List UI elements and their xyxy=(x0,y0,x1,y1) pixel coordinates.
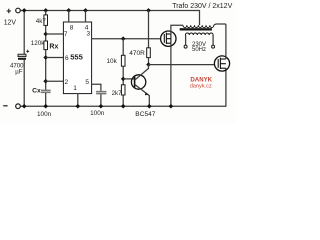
junction ground at pin 1 xyxy=(75,104,80,109)
wire Cx to ground rail xyxy=(45,93,47,106)
wire to pin 2 xyxy=(46,80,64,82)
transistor Q2 MOSFET left xyxy=(161,31,176,46)
transistor Q3 MOSFET right xyxy=(214,56,229,71)
wire pin 8 xyxy=(68,11,70,23)
junction ground at Q1 emitter xyxy=(147,104,152,109)
terminal secondary right xyxy=(212,45,215,48)
wire R4 to collector node xyxy=(148,58,150,65)
wire primary right end to Q3 xyxy=(214,24,226,25)
terminal secondary left xyxy=(184,45,187,48)
terminal +12V xyxy=(16,8,21,13)
wire output to R10k xyxy=(122,39,124,56)
transformer T1 secondary winding 230V xyxy=(185,33,213,35)
capacitor C2 100n plates xyxy=(96,92,106,94)
svg-text:BC547: BC547 xyxy=(135,111,155,118)
wire pin 3 output xyxy=(92,38,161,40)
wire secondary right leg xyxy=(212,35,214,45)
svg-text:7: 7 xyxy=(64,31,68,38)
capacitor Cx plates xyxy=(41,90,51,92)
svg-text:5: 5 xyxy=(85,79,89,86)
svg-text:50Hz: 50Hz xyxy=(192,47,206,53)
svg-text:2k7: 2k7 xyxy=(112,90,123,97)
junction ground at Q2 source xyxy=(169,104,174,109)
junction node pin7 xyxy=(43,32,48,37)
label plus sign xyxy=(7,9,11,13)
svg-text:6: 6 xyxy=(65,55,69,62)
junction top rail at pin 8 xyxy=(66,8,71,13)
label plus of C1 xyxy=(26,50,29,53)
svg-text:100n: 100n xyxy=(37,111,52,118)
junction ground at R3 xyxy=(121,104,126,109)
junction collector node xyxy=(146,62,151,67)
label minus sign xyxy=(3,105,7,107)
wire secondary left leg xyxy=(185,35,187,45)
resistor R3 2k7 body xyxy=(121,85,125,95)
resistor R4 470R body xyxy=(147,48,151,58)
transformer T1 primary winding 2x12V xyxy=(183,25,214,27)
wire pin 1 to ground xyxy=(77,94,79,107)
wire R3 to ground xyxy=(122,95,124,106)
junction output node xyxy=(121,36,126,41)
junction top rail at filter cap xyxy=(22,8,27,13)
svg-text:3: 3 xyxy=(87,31,91,38)
junction top rail at R470 xyxy=(146,8,151,13)
wire filter cap branch lower xyxy=(23,60,25,106)
resistor R2 10k body xyxy=(121,55,125,66)
wire collector node to Q3 gate xyxy=(149,64,215,66)
svg-text:470R: 470R xyxy=(129,50,145,57)
svg-text:Cx: Cx xyxy=(32,88,41,95)
junction node pin2 xyxy=(43,79,48,84)
wire ground bottom rail xyxy=(20,68,226,106)
wire R2 to base node xyxy=(122,66,124,85)
wire pin 4 xyxy=(85,11,87,23)
capacitor C1 4700uF electrolytic plates xyxy=(18,54,26,60)
IC U1 555 body xyxy=(63,22,91,94)
wire filter cap branch upper xyxy=(23,11,25,55)
junction ground at Cx xyxy=(43,104,48,109)
wire to pin 6 xyxy=(46,57,64,59)
svg-text:1: 1 xyxy=(73,85,77,92)
junction node pin6 xyxy=(43,55,48,60)
svg-text:10k: 10k xyxy=(107,58,118,65)
junction ground at filter cap xyxy=(22,104,27,109)
wire base of Q1 xyxy=(123,78,134,80)
svg-text:4k7: 4k7 xyxy=(36,18,47,25)
resistor Rx 120k body xyxy=(44,41,48,50)
junction top rail at R1 xyxy=(43,8,48,13)
junction ground at C2 xyxy=(99,104,104,109)
wire Q2 drain to transformer xyxy=(171,25,183,34)
wire Q2 source to ground xyxy=(170,43,172,106)
wire pin 5 xyxy=(92,84,101,91)
svg-text:120k: 120k xyxy=(31,40,46,47)
terminal negative xyxy=(16,104,21,109)
svg-text:µF: µF xyxy=(15,68,23,75)
transistor Q1 BC547 xyxy=(131,65,149,107)
wire rail to R1 xyxy=(45,11,47,15)
svg-text:Rx: Rx xyxy=(49,44,58,51)
transformer T1 core xyxy=(180,28,212,30)
svg-text:555: 555 xyxy=(70,53,83,62)
wire Q3 drain from transformer xyxy=(225,24,227,59)
svg-text:8: 8 xyxy=(70,25,74,32)
svg-text:100n: 100n xyxy=(90,110,105,117)
wire +12V top rail xyxy=(20,11,199,26)
svg-text:2: 2 xyxy=(65,79,69,86)
wire C2 to ground xyxy=(100,94,102,106)
wire to pin 7 xyxy=(46,33,64,35)
wire R1 to Rx xyxy=(45,25,47,41)
junction base node xyxy=(121,77,126,82)
wire Rx to Cx xyxy=(45,50,47,90)
svg-text:danyk.cz: danyk.cz xyxy=(190,83,212,89)
svg-text:12V: 12V xyxy=(4,19,17,26)
junction top rail at pin 4 xyxy=(83,8,88,13)
svg-text:Trafo 230V / 2x12V: Trafo 230V / 2x12V xyxy=(172,3,232,10)
wire rail to R470 xyxy=(148,11,150,48)
resistor R1 4k7 body xyxy=(44,15,48,26)
